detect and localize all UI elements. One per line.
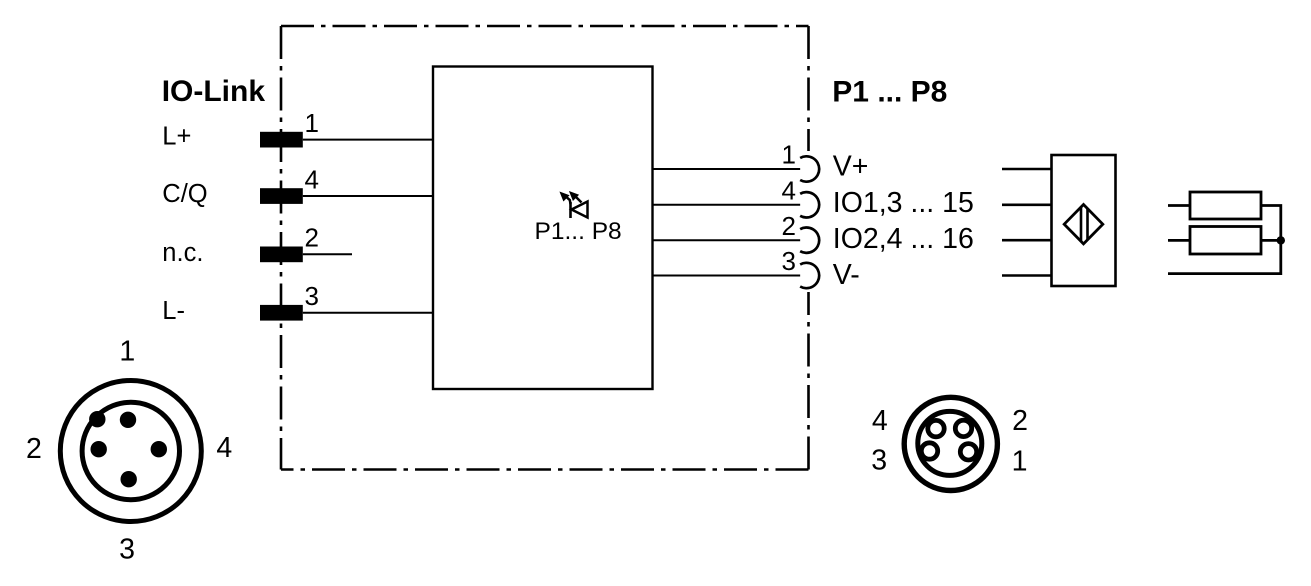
- svg-text:1: 1: [305, 108, 319, 138]
- connector J1 keying notch dot: [89, 411, 105, 427]
- svg-text:IO-Link: IO-Link: [162, 75, 266, 108]
- connector J1 (IO-Link M12 socket) outer ring: [60, 381, 201, 522]
- svg-text:4: 4: [305, 164, 319, 194]
- svg-text:2: 2: [782, 211, 796, 241]
- wire L- to controller: [303, 312, 433, 314]
- junction dot common rail: [1277, 236, 1285, 244]
- sensor B1 symbol right vertical line: [1086, 209, 1089, 240]
- controller block U1: [433, 67, 653, 390]
- wire IO2 from controller: [653, 239, 804, 241]
- load resistor R1: [1190, 192, 1261, 219]
- device boundary dash-dot frame bottom side: [281, 468, 809, 471]
- svg-text:4: 4: [782, 176, 796, 206]
- terminal C/Q black pad (pin 4): [260, 188, 303, 204]
- connector J2 pin 1 contact circle (bottom-right): [960, 444, 976, 460]
- connector J1 pin 3 contact dot (bottom): [121, 471, 137, 487]
- sensor B1 symbol left vertical line: [1080, 207, 1083, 241]
- connector J1 inner ring: [82, 402, 179, 499]
- wire R2 to common rail: [1261, 239, 1281, 242]
- LED D1 emission arrow 2: [570, 192, 582, 203]
- device boundary right border upper segment: [807, 26, 810, 151]
- svg-text:1: 1: [782, 140, 796, 170]
- svg-text:n.c.: n.c.: [162, 239, 203, 267]
- svg-text:2: 2: [305, 223, 319, 253]
- device boundary dash-dot frame top side: [281, 25, 809, 28]
- socket contact arc pin 2 (IO2): [800, 228, 819, 253]
- connector J2 pin 2 contact circle (top-right): [955, 420, 971, 436]
- connector J2 pin 4 contact circle (top-left): [928, 420, 944, 436]
- connector J2 (port M8 socket) outer ring: [904, 397, 997, 490]
- LED D1 triangle: [572, 202, 588, 218]
- sensor B1 proximity symbol diamond: [1064, 205, 1103, 244]
- socket contact arc pin 1 (V+): [800, 156, 819, 181]
- wire C/Q to controller: [303, 195, 433, 197]
- svg-text:1: 1: [119, 336, 135, 368]
- svg-text:3: 3: [119, 534, 135, 566]
- connector J1 pin 2 contact dot (left): [91, 441, 107, 457]
- svg-text:P1 ... P8: P1 ... P8: [832, 75, 947, 108]
- svg-text:IO2,4 ... 16: IO2,4 ... 16: [833, 223, 974, 255]
- terminal L+ black pad (pin 1): [260, 132, 303, 148]
- socket contact arc pin 4 (IO1): [800, 192, 819, 217]
- svg-text:3: 3: [871, 444, 887, 476]
- sensor wire V+ stub: [1002, 168, 1052, 171]
- wire IO1 from controller: [653, 204, 804, 206]
- load resistor R2: [1190, 227, 1261, 255]
- LED D1 cathode bar: [569, 202, 572, 218]
- wire R1 to common rail: [1261, 206, 1281, 241]
- sensor wire IO1 stub: [1002, 204, 1052, 207]
- wire V+ from controller: [653, 168, 804, 170]
- wire L+ to controller: [303, 139, 433, 141]
- svg-text:2: 2: [1012, 405, 1028, 437]
- load R2 wire stub: [1168, 239, 1190, 242]
- device boundary right border lower segment: [807, 292, 810, 470]
- svg-text:2: 2: [26, 433, 42, 465]
- device boundary dash-dot frame left side: [280, 26, 283, 470]
- wire n.c. stub: [303, 253, 352, 255]
- svg-text:4: 4: [872, 405, 888, 437]
- svg-text:C/Q: C/Q: [162, 180, 207, 208]
- svg-text:IO1,3 ... 15: IO1,3 ... 15: [833, 187, 974, 219]
- sensor B1 body: [1052, 155, 1116, 286]
- svg-text:3: 3: [305, 281, 319, 311]
- terminal n.c. black pad (pin 2): [260, 247, 303, 263]
- sensor wire IO2 stub: [1002, 239, 1052, 242]
- svg-text:3: 3: [782, 246, 796, 276]
- svg-text:L-: L-: [162, 297, 185, 325]
- svg-text:4: 4: [216, 432, 232, 464]
- connector J2 inner ring: [918, 411, 982, 475]
- socket contact arc pin 3 (V-): [800, 263, 819, 288]
- connector J1 pin 4 contact dot (right): [151, 441, 167, 457]
- svg-text:L+: L+: [162, 123, 191, 151]
- svg-text:V-: V-: [833, 259, 860, 291]
- svg-text:P1... P8: P1... P8: [535, 218, 622, 245]
- LED D1 emission arrow 1: [560, 192, 570, 204]
- connector J1 pin 1 contact dot (top): [120, 412, 136, 428]
- wire common rail down and return to V-: [1168, 240, 1281, 273]
- terminal L- black pad (pin 3): [260, 305, 303, 321]
- svg-text:1: 1: [1012, 446, 1028, 478]
- connector J2 pin 3 contact circle (bottom-left): [921, 443, 937, 459]
- sensor wire V- stub: [1002, 274, 1052, 277]
- wire V- from controller: [653, 275, 804, 277]
- svg-text:V+: V+: [833, 151, 869, 183]
- load R1 wire stub: [1168, 204, 1190, 207]
